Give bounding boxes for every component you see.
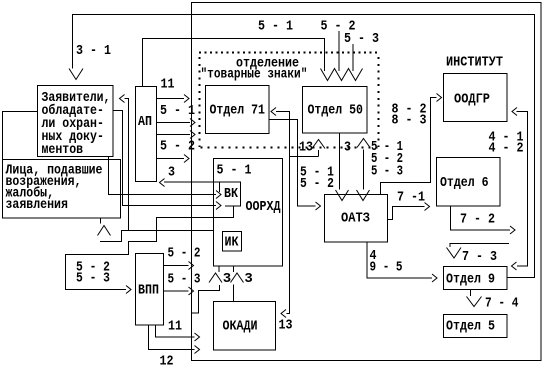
svg-text:ООДГР: ООДГР bbox=[454, 91, 490, 107]
arrowhead into Отдел 9 right bbox=[512, 262, 517, 270]
svg-text:4 - 2: 4 - 2 bbox=[489, 140, 524, 156]
wire ООРХД stub arrow2 + down to ОКАДИ bbox=[233, 266, 235, 302]
svg-text:Отдел 50: Отдел 50 bbox=[308, 102, 363, 118]
svg-text:11: 11 bbox=[161, 76, 175, 92]
wire АП arrow 4 bbox=[157, 158, 185, 160]
wire 7-4 stub bbox=[470, 290, 472, 297]
wire ОАТЗ top-right to ООДГР (8-2/8-3) bbox=[381, 98, 437, 195]
arrowhead АП out 2 bbox=[190, 119, 195, 127]
wire ВПП bottom 12 bbox=[149, 325, 195, 350]
arrowhead up into Лица bbox=[98, 226, 111, 236]
wire АП arrow 1 (11) bbox=[157, 98, 185, 100]
arrowhead ВПП right 5-2 bbox=[189, 262, 194, 270]
svg-text:5 - 1: 5 - 1 bbox=[217, 162, 252, 178]
box АП bbox=[136, 87, 157, 182]
svg-text:9 - 5: 9 - 5 bbox=[370, 259, 403, 275]
arrowhead 9-5 into Отдел 9 bbox=[432, 274, 437, 282]
arrowhead ВПП 12 bbox=[195, 346, 200, 354]
wire АП arrow 3 bbox=[157, 134, 191, 136]
svg-text:7 -1: 7 -1 bbox=[397, 189, 425, 205]
wire stub Лица bottom bbox=[100, 218, 102, 224]
arrowhead down into Заявители bbox=[69, 69, 83, 80]
arrowhead down 7-3 bbox=[447, 248, 462, 259]
arrowhead down into ОАТЗ (3) bbox=[336, 190, 349, 201]
arrowhead into ВПП left bbox=[126, 286, 131, 294]
wire ООРХД stub arrow1 bbox=[218, 266, 220, 272]
arrowhead АП out 1 bbox=[184, 95, 189, 103]
svg-text:Отдел 5: Отдел 5 bbox=[446, 318, 495, 334]
wire ВПП right arrow 5-2 bbox=[164, 265, 189, 267]
svg-text:11: 11 bbox=[168, 318, 182, 334]
svg-text:7 - 3: 7 - 3 bbox=[462, 248, 497, 264]
wire ОАТЗ bottom 4 / 9-5 to Отдел 9 bbox=[367, 242, 432, 278]
box Лица bbox=[3, 160, 121, 219]
wire Отдел 6 bottom 7-2 bbox=[451, 206, 511, 230]
wire bus right 527 : into ООДГР and Отдел 9 bbox=[517, 112, 528, 267]
svg-text:ВК: ВК bbox=[224, 185, 238, 201]
svg-text:13: 13 bbox=[299, 139, 313, 155]
box Отдел 50 bbox=[303, 87, 368, 134]
svg-text:5 - 3: 5 - 3 bbox=[344, 30, 379, 46]
wire V198 : 5-3 target down-left into frame bbox=[192, 285, 220, 313]
wire 5-2 top vertical bbox=[338, 31, 340, 71]
arrowhead up into Отдел 50 (bidir) bbox=[357, 139, 370, 148]
box ИК bbox=[223, 232, 242, 252]
wire 3-1 : Отдел 9 right, up right side, across top, down into Заявители bbox=[73, 15, 535, 278]
box ОКАДИ bbox=[214, 302, 276, 351]
wire ВПП bottom 11 bbox=[156, 325, 195, 337]
svg-text:5 - 2: 5 - 2 bbox=[300, 175, 334, 191]
svg-text:5 - 3: 5 - 3 bbox=[371, 163, 403, 179]
box ВК bbox=[220, 182, 241, 206]
arrowhead up into ООРХД 2 bbox=[231, 273, 244, 283]
svg-text:ИК: ИК bbox=[225, 234, 239, 250]
arrowhead up into Отдел 50 (13) bbox=[312, 140, 325, 149]
arrowhead ВПП right 5-3 bbox=[189, 287, 194, 295]
arrowhead into ОАТЗ left bbox=[316, 202, 321, 210]
wire 7-3 bbox=[450, 244, 509, 248]
svg-text:Отдел 71: Отдел 71 bbox=[210, 102, 266, 118]
wire reply to Заявители : from ООРХД left edge bbox=[100, 99, 214, 242]
wire ОАТЗ right jog 7-1 bbox=[388, 207, 425, 220]
box Заявители bbox=[38, 86, 114, 157]
svg-text:13: 13 bbox=[279, 317, 293, 333]
dash between V-V bbox=[350, 194, 355, 196]
box ВПП bbox=[136, 254, 164, 326]
arrowhead ВПП 11 bbox=[195, 333, 200, 341]
wire АП arrow 2 bbox=[157, 122, 191, 124]
wire 3 : ВК top-left to АП bbox=[164, 181, 220, 183]
svg-text:3 - 1: 3 - 1 bbox=[76, 42, 111, 58]
wire Отдел 50 bottom 3 to ОАТЗ bbox=[339, 133, 341, 190]
svg-text:7 - 4: 7 - 4 bbox=[485, 294, 519, 311]
svg-text:"товарные знаки": "товарные знаки" bbox=[201, 65, 308, 82]
wire W_BK1 : Заявители bottom to ВК bbox=[109, 157, 217, 195]
svg-text:ООРХД: ООРХД bbox=[246, 198, 281, 214]
arrowhead 7-1 bbox=[425, 203, 430, 211]
arrowhead into ООДГР right bbox=[512, 108, 517, 116]
arrowhead up into ООРХД 1 bbox=[209, 273, 222, 283]
wire W_BK2 : Заявители right to ВК bottom corner bbox=[113, 111, 216, 206]
svg-text:5 - 3: 5 - 3 bbox=[168, 271, 201, 287]
svg-text:7 - 2: 7 - 2 bbox=[460, 211, 495, 227]
box Отдел 9 bbox=[444, 267, 508, 290]
svg-text:5 - 1: 5 - 1 bbox=[160, 102, 195, 118]
svg-text:3: 3 bbox=[344, 139, 351, 155]
svg-text:ментов: ментов bbox=[42, 141, 84, 157]
arrowhead АП out 3 bbox=[190, 131, 195, 139]
svg-text:ВПП: ВПП bbox=[138, 282, 159, 298]
svg-text:3: 3 bbox=[223, 271, 231, 287]
svg-text:Отдел 6: Отдел 6 bbox=[440, 174, 488, 190]
arrowhead down into ОАТЗ (bidir) bbox=[357, 190, 370, 201]
arrowhead into ООДГР left bbox=[437, 94, 442, 102]
svg-text:5 - 3: 5 - 3 bbox=[76, 269, 110, 285]
arrowhead into ВК 1 bbox=[216, 191, 221, 199]
arrowhead 7-2 bbox=[510, 226, 515, 234]
svg-text:5 - 2: 5 - 2 bbox=[160, 138, 195, 154]
wire 5-1 top : АП top up, right, down into zigzag bbox=[143, 39, 325, 87]
box ООРХД bbox=[214, 159, 283, 267]
svg-text:12: 12 bbox=[160, 353, 174, 369]
svg-text:3: 3 bbox=[168, 164, 175, 180]
wire Отдел 71 bottom to ОАТЗ (5-1/5-2) bbox=[269, 120, 316, 207]
svg-text:Отдел 9: Отдел 9 bbox=[446, 271, 495, 287]
box Отдел 5 bbox=[444, 315, 508, 338]
big institute frame bbox=[192, 3, 542, 361]
dotted border отделение товарные знаки bbox=[199, 53, 379, 148]
svg-text:АП: АП bbox=[138, 113, 152, 129]
box Отдел 6 bbox=[437, 158, 501, 207]
svg-text:3: 3 bbox=[244, 271, 252, 287]
box ООДГР bbox=[444, 74, 508, 122]
svg-text:5 - 1: 5 - 1 bbox=[258, 18, 293, 34]
wire Отдел 50 bidirectional to ОАТЗ bbox=[363, 150, 365, 190]
arrowhead into ОКАДИ (13) bbox=[281, 310, 286, 318]
zigzag arrowheads into Отдел 50 top bbox=[321, 69, 363, 81]
arrowhead into Заявители right bbox=[120, 95, 125, 103]
wire link Заявители left to Лица top-left bbox=[3, 112, 38, 160]
arrowhead down 7-4 bbox=[467, 297, 482, 307]
box ОАТЗ bbox=[325, 195, 388, 243]
svg-text:ИНСТИТУТ: ИНСТИТУТ bbox=[446, 54, 503, 70]
svg-text:5 - 2: 5 - 2 bbox=[168, 245, 201, 261]
svg-text:8 - 3: 8 - 3 bbox=[392, 112, 427, 128]
wire 5-3 top vertical bbox=[352, 44, 354, 71]
svg-text:заявления: заявления bbox=[6, 196, 68, 212]
arrowhead АП out 4 bbox=[184, 155, 189, 163]
wire 13 bus : Отдел 71 across down to ОКАДИ, branch to Отдел 50 bbox=[276, 112, 319, 314]
svg-text:ОАТЗ: ОАТЗ bbox=[341, 210, 370, 226]
arrowhead into АП (3) bbox=[160, 179, 165, 187]
svg-text:ОКАДИ: ОКАДИ bbox=[223, 318, 258, 334]
arrowhead into ВК 2 bbox=[216, 202, 221, 210]
wire ВК bottom to ВПП (5-2/5-3) bbox=[66, 206, 234, 290]
box Отдел 71 bbox=[206, 86, 270, 134]
wire ВПП right arrow 5-3 bbox=[164, 290, 189, 292]
arrowhead into Отдел 71 bbox=[271, 108, 276, 116]
